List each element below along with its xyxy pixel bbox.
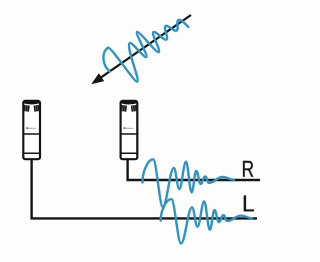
label R	[243, 161, 253, 177]
microphone right	[121, 101, 138, 159]
wire: left mic cable down and L output line	[32, 159, 257, 218]
microphone left	[23, 101, 40, 159]
label L	[244, 195, 254, 211]
incident sound wave along arrow	[97, 3, 197, 91]
R channel waveform	[142, 159, 233, 207]
wire: right mic cable down and R output line	[128, 159, 260, 180]
L channel waveform	[161, 199, 252, 243]
incident sound arrow	[91, 15, 191, 84]
